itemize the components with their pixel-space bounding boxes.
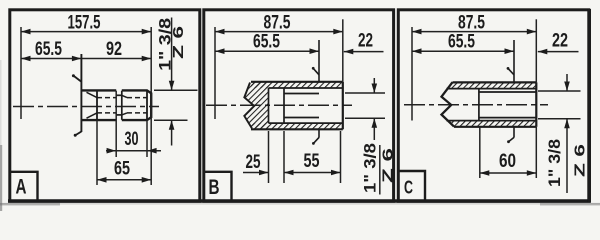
panel B hub right face: [342, 82, 344, 130]
panel B dimension 55: [284, 151, 341, 175]
panel C sleeve step line: [478, 89, 480, 121]
panel A dimension 65: [97, 158, 151, 182]
svg-text:92: 92: [106, 39, 122, 60]
panel C tube right face: [535, 82, 537, 126]
panel C centerline: [404, 104, 548, 106]
border emphasis bottom: [8, 199, 591, 202]
panel C dimension 87.5: [412, 13, 536, 35]
panel B dimension 87.5: [215, 13, 343, 35]
panel B centerline: [206, 104, 352, 106]
border emphasis right: [588, 9, 591, 202]
panel A chamfer start line: [146, 90, 148, 120]
panel C dimension 22: [538, 31, 579, 55]
panel A spline root dashed lines: [97, 98, 147, 113]
panel B spline bore lines: [284, 94, 319, 118]
svg-text:60: 60: [499, 151, 516, 172]
svg-text:25: 25: [246, 152, 261, 173]
panel A diameter extension lines: [154, 90, 198, 120]
panel C label box: [400, 171, 426, 200]
svg-text:1" 3/8: 1" 3/8: [545, 139, 564, 187]
panel C diameter extension lines: [538, 91, 581, 119]
panel C frame: [398, 10, 589, 202]
svg-text:22: 22: [552, 31, 568, 52]
panel B hub left break block hatched: [244, 83, 268, 129]
svg-text:87.5: 87.5: [458, 13, 485, 34]
svg-text:65.5: 65.5: [35, 39, 62, 60]
svg-text:B: B: [209, 176, 220, 199]
panel B spline end line with hooks: [313, 40, 319, 143]
panel A shaft outline: [81, 90, 151, 120]
svg-text:Z 6: Z 6: [170, 26, 187, 59]
panel A extension line chamfer to 30: [146, 120, 148, 157]
panel A dimension 65.5: [21, 39, 81, 61]
panel B dimension 65.5: [215, 32, 319, 55]
panel A label box: [11, 172, 38, 200]
svg-text:87.5: 87.5: [264, 13, 291, 34]
svg-text:1" 3/8: 1" 3/8: [360, 143, 379, 193]
panel C dimension 65.5: [412, 32, 514, 55]
svg-text:65.5: 65.5: [448, 32, 475, 53]
panel A extension line groove: [115, 91, 117, 157]
panel B dimension 25: [243, 152, 269, 175]
svg-text:A: A: [16, 176, 27, 199]
panel C extension line 60 left: [479, 127, 481, 178]
panel B extension lines below: [269, 131, 341, 183]
panel C left extension line: [411, 27, 413, 121]
scan artifact left edge streak: [0, 145, 2, 211]
panel A spline runout diagonals: [87, 92, 128, 118]
panel A shaft groove: [116, 91, 122, 120]
panel B dimension 22: [344, 31, 384, 55]
svg-text:30: 30: [125, 129, 139, 150]
svg-text:65.5: 65.5: [253, 32, 280, 53]
panel C spline end line with hooks: [508, 40, 514, 142]
svg-text:65: 65: [114, 158, 130, 179]
panel A diameter dimension line with arrows: [169, 18, 175, 146]
panel A shaft end extension line with hooks: [72, 54, 82, 137]
panel B diameter dimension line with arrows: [372, 78, 378, 140]
panel A dimension 157.5: [21, 13, 151, 35]
panel A dimension 30: [106, 129, 161, 153]
panel B spec separator line: [379, 145, 381, 195]
panel B hub top wall hatched: [251, 82, 343, 88]
panel B diameter extension lines: [345, 93, 385, 118]
panel B left extension line: [214, 27, 216, 119]
panel B hub bottom wall hatched: [251, 123, 343, 129]
panel C right face extension: [535, 19, 537, 178]
panel A frame: [10, 10, 200, 202]
panel A right extension line: [150, 27, 152, 185]
panel C dimension 60: [480, 151, 537, 176]
svg-text:55: 55: [304, 151, 320, 172]
panel A left extension line: [20, 27, 22, 119]
panel C diameter dimension line with arrows: [564, 74, 570, 193]
panel B frame: [204, 10, 394, 202]
svg-text:22: 22: [358, 31, 373, 52]
panel A dimension 92: [81, 39, 151, 61]
panel B bore recess verticals: [269, 88, 285, 123]
panel A spline start line: [96, 91, 98, 120]
panel B right face extension up: [342, 19, 344, 82]
panel B label box: [205, 172, 232, 200]
scan artifact bottom shadow: [0, 203, 600, 205]
panel C sleeve spline lines: [479, 92, 536, 118]
svg-text:157.5: 157.5: [68, 13, 101, 34]
panel A centerline: [13, 106, 159, 108]
svg-text:Z 6: Z 6: [572, 144, 589, 177]
panel A extension line spline start to 65: [96, 120, 98, 185]
svg-text:Z 6: Z 6: [380, 148, 397, 183]
svg-text:C: C: [404, 178, 413, 198]
panel C tube left break zigzag: [442, 82, 455, 126]
panel C tube top wall hatched: [447, 82, 537, 88]
panel C tube bottom wall hatched: [447, 121, 537, 127]
